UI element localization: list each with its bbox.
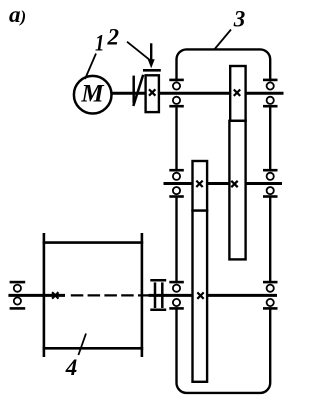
svg-text:M: M bbox=[80, 81, 104, 108]
svg-text:1: 1 bbox=[95, 30, 104, 56]
svg-text:2: 2 bbox=[107, 25, 120, 50]
svg-text:4: 4 bbox=[65, 355, 78, 380]
svg-text:3: 3 bbox=[233, 7, 246, 32]
